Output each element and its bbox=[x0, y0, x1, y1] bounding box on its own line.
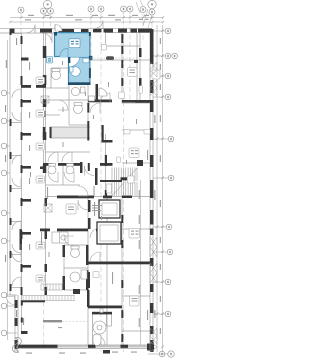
blue mini marker bbox=[47, 57, 53, 64]
interior vertical x88 lower bbox=[87, 196, 89, 345]
blue unit dark corners bbox=[54, 32, 92, 85]
top dimension line 1 bbox=[10, 18, 163, 23]
corridor band top: y46 bbox=[105, 45, 140, 47]
left lower exterior bbox=[14, 295, 16, 352]
balcony wavy bottom-left bbox=[12, 338, 21, 353]
bathroom row bottom y185 bbox=[46, 184, 81, 186]
elevator shaft 2 bbox=[97, 222, 121, 244]
y229 dark wall bbox=[40, 229, 50, 232]
left wing module bars (x21-31) bbox=[22, 57, 29, 59]
parapet bar y321 bbox=[43, 320, 62, 322]
left dim micro text bbox=[5, 38, 24, 325]
y163 dark wall bbox=[43, 163, 52, 166]
blue unit floor bbox=[54, 32, 91, 85]
left vert dark y228-250 bbox=[20, 229, 23, 250]
x122 wall segs bbox=[121, 34, 123, 43]
bathroom col x64 bbox=[63, 245, 65, 290]
right exterior wall bbox=[149, 29, 151, 352]
x140 wall segs top bbox=[139, 48, 142, 57]
wall block y60 x134 bbox=[134, 60, 138, 63]
left wing balcony doors bbox=[12, 89, 21, 98]
corridor x88 dark segs bbox=[87, 103, 89, 113]
elevator shaft 1 bbox=[99, 200, 120, 218]
door below y196 bbox=[78, 200, 88, 210]
right grid bubbles with leaders bbox=[148, 28, 177, 357]
door y196 bbox=[78, 186, 88, 196]
doors into bathrooms below bbox=[48, 172, 58, 182]
corridor vert x95-98 bbox=[96, 84, 99, 100]
interior vertical x69 bbox=[68, 57, 70, 125]
h wall y103 right bbox=[122, 102, 150, 104]
bottom exterior wall bbox=[15, 344, 155, 346]
right dim micro text bbox=[154, 38, 161, 334]
door room above y100 bbox=[100, 93, 110, 103]
right rooms y229 bbox=[122, 228, 150, 230]
left wing wall y85-88 bbox=[21, 85, 31, 88]
grid bubble (101,9) bbox=[98, 6, 104, 12]
left wing x21 wall segs bbox=[21, 36, 23, 44]
wall x137 top bbox=[136, 33, 138, 100]
y196 dark segs bbox=[57, 196, 94, 199]
grid bubble pair left bbox=[41, 8, 47, 14]
door top corridor outside bbox=[95, 21, 104, 29]
bathroom col dark bbox=[63, 245, 66, 257]
blue sink rect bbox=[83, 58, 89, 63]
left wing partial walls x10-21 bbox=[10, 122, 22, 124]
wall x140 bbox=[139, 29, 141, 103]
L-wall corridor bbox=[102, 125, 104, 142]
toilet room top dark bbox=[92, 312, 112, 315]
h wall y130 right rooms bbox=[122, 129, 150, 131]
toilets row y170 bbox=[48, 166, 56, 174]
door top-left unit bbox=[42, 33, 52, 43]
x43-46 wall segs bbox=[43, 46, 47, 58]
grid bubble (130,9) bbox=[127, 6, 133, 12]
right wall piers bbox=[150, 29, 154, 64]
corridor wall x105-107 bbox=[106, 196, 108, 345]
hatch strip y292 bbox=[21, 296, 75, 301]
bathroom row wall x63 bbox=[62, 163, 64, 185]
grid bubble (123,9) bbox=[121, 6, 127, 12]
dimension ticks top bbox=[9, 16, 164, 23]
bottom dim text bbox=[26, 352, 137, 354]
grid bubble big right bbox=[148, 0, 156, 8]
grid bubble (152,12) bbox=[149, 9, 155, 15]
left bubbles bbox=[1, 90, 17, 336]
door into bath row bbox=[85, 166, 95, 176]
right bubble glyphs bbox=[161, 30, 175, 355]
hatch strip y283 bbox=[41, 284, 63, 290]
stair badges bbox=[107, 184, 112, 193]
elevator blob corridor bbox=[106, 56, 114, 60]
y306 dark bbox=[88, 306, 122, 309]
top exterior wall bbox=[0, 28, 152, 30]
toilet (75,253) bbox=[71, 249, 80, 258]
corner shower arc bbox=[99, 88, 107, 96]
blue bathroom toilet bbox=[71, 67, 81, 77]
staircase y127 bbox=[50, 127, 87, 138]
grid bubble big left bbox=[43, 0, 51, 8]
toilet room bottom walls bbox=[92, 312, 94, 345]
vertical grid dashed lines bbox=[21, 12, 152, 352]
staircase right y200 bbox=[100, 168, 137, 197]
bottom wall dark segs bbox=[18, 345, 58, 348]
door corridor y103 bbox=[90, 103, 100, 113]
dimension micro-text top bbox=[25, 15, 149, 21]
blue room door gap+arc bbox=[60, 56, 68, 58]
corridor dashes y58 bbox=[62, 58, 137, 321]
left lower wall piers bbox=[15, 300, 18, 308]
x88-90 wall segs y200-229 bbox=[88, 200, 91, 212]
top dimension line 2 bbox=[10, 21, 163, 23]
h wall y306 bbox=[88, 306, 122, 308]
y262 dark wall bbox=[88, 262, 122, 265]
window bowties right facade bbox=[150, 62, 157, 352]
h wall y100 light part bbox=[46, 99, 89, 101]
left wing bar stub y58 bbox=[21, 58, 29, 61]
bubble glyphs bbox=[20, 4, 153, 14]
h wall y88 center bbox=[46, 87, 70, 89]
left dimension line bbox=[8, 40, 141, 345]
shaft rects bbox=[41, 96, 52, 212]
h wall y125 bathrooms bbox=[69, 124, 88, 126]
dark block y289 bbox=[73, 289, 80, 294]
grid bubble (91,9) bbox=[88, 6, 94, 12]
stairwell box bbox=[50, 126, 90, 128]
left wing wall x43.5 bbox=[43, 33, 45, 163]
corner sink (90,100) bbox=[89, 96, 95, 101]
bathroom walls row 163-185 bbox=[80, 162, 83, 173]
leader diagonals top right bbox=[136, 0, 152, 28]
right dimension line outer bbox=[157, 25, 163, 352]
washing machine circle bbox=[93, 321, 106, 334]
door bottom bbox=[95, 335, 105, 345]
door mid room bbox=[58, 100, 68, 110]
bottom-left door outside bbox=[7, 297, 15, 305]
corridor doors right bbox=[90, 228, 100, 238]
entry door arcs outside top wall bbox=[26, 25, 35, 34]
toilet oval bottom bbox=[93, 334, 101, 345]
tiny text specks bbox=[29, 61, 148, 328]
left wing wall x21.5 bbox=[21, 33, 23, 333]
right dim ticks bbox=[156, 30, 164, 349]
left wall piers x10 bbox=[10, 29, 12, 35]
main wall y100 dark bbox=[88, 100, 112, 103]
x88 y290-307 bbox=[87, 290, 90, 307]
h wall y115 bbox=[46, 114, 61, 116]
h wall y152 bbox=[46, 151, 91, 153]
doors above y163 bbox=[48, 152, 58, 162]
top wall piers bbox=[10, 29, 15, 34]
corridor wall x122 bbox=[121, 29, 123, 103]
washer circle (75,277) bbox=[70, 272, 80, 282]
right dimension line inner bbox=[156, 25, 158, 352]
h wall y196 full bbox=[46, 196, 151, 198]
interior vertical x88 bbox=[87, 60, 89, 130]
blue bathroom door arc bbox=[68, 57, 79, 67]
toilet (56,75) bbox=[52, 71, 61, 80]
toilet (77,92) bbox=[71, 87, 79, 95]
right rooms y295 bbox=[122, 295, 150, 297]
toilet (78,109) bbox=[74, 105, 83, 114]
kitchen/furniture blocks bbox=[52, 232, 68, 243]
small badges bbox=[36, 45, 160, 307]
h wall y68 left of blue bbox=[51, 67, 68, 69]
blue unit walls bbox=[54, 32, 91, 85]
left exterior wall bbox=[9, 29, 11, 295]
grid bubble (143,9) bbox=[140, 7, 146, 13]
h wall y163 right rooms bbox=[122, 162, 150, 164]
corridor band top: y60 bbox=[88, 59, 150, 61]
grid bubble r1 (21,10) bbox=[18, 0, 156, 15]
unit badge bbox=[69, 39, 80, 48]
